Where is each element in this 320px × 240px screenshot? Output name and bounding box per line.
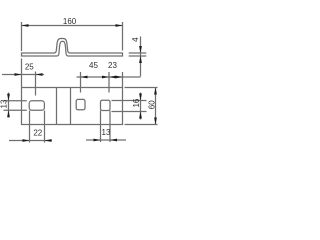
dimension 4: dimension line vertical <box>140 37 142 77</box>
dimension 16: dimension line <box>140 93 142 120</box>
svg-text:13: 13 <box>0 99 8 108</box>
dimension 45-23: shared extension line <box>108 72 110 93</box>
dimension 25: extension line left <box>21 59 23 88</box>
svg-text:22: 22 <box>33 129 42 138</box>
side view profile (strip with omega bump) <box>22 39 123 57</box>
dimension 45: arrow right <box>102 76 109 79</box>
dimension 13 left: dimension line <box>8 93 10 118</box>
svg-text:16: 16 <box>132 98 141 107</box>
dimension 60: extension line bottom <box>125 124 158 126</box>
dimension 25: dimension line <box>2 74 44 76</box>
dimension 60: arrow up <box>154 88 157 95</box>
dimension 160: arrow right <box>116 24 123 27</box>
dimension 60: arrow down <box>154 118 157 125</box>
dimension 16: arrow down <box>139 94 142 101</box>
dimension 22: extension line right <box>44 111 46 143</box>
dimension 16: arrow up <box>139 112 142 119</box>
dimension 16: extension line top <box>112 100 147 102</box>
dimension 23: arrow left <box>109 76 116 79</box>
svg-text:4: 4 <box>131 37 140 42</box>
dimension 13 left: extension line top <box>4 100 27 102</box>
svg-text:13: 13 <box>102 128 111 137</box>
dimension 45: extension line left <box>80 72 82 93</box>
dimension 25: arrow left <box>15 73 22 76</box>
dimension 23: extension line right (plate right edge extended up) <box>122 72 124 87</box>
slot A (left rounded slot) <box>29 101 44 110</box>
dimension 13 bottom: extension line right <box>109 111 111 143</box>
dimension 60: dimension line <box>155 88 157 125</box>
dimension 160: arrow left <box>22 24 29 27</box>
dimension 13 left: arrow up <box>7 110 10 117</box>
slot C (right square slot) <box>101 100 111 110</box>
dimension 4: extension tick bottom <box>129 55 147 57</box>
dimension 13 bottom: dimension line <box>86 139 126 141</box>
dimension 13 left: arrow down <box>7 94 10 101</box>
dimension 22: arrow left <box>23 139 30 142</box>
svg-text:45: 45 <box>89 61 98 70</box>
dimension 13 bottom: extension line left <box>100 111 102 143</box>
dimension 13 left: extension line bottom <box>4 109 27 111</box>
dimension 160: extension line left <box>21 22 23 51</box>
dimension 22: arrow right <box>45 139 52 142</box>
dimension 160: extension line right <box>122 22 124 51</box>
svg-text:160: 160 <box>63 17 77 26</box>
svg-text:60: 60 <box>148 100 157 109</box>
dimension 60: extension line top <box>125 87 158 89</box>
dimension 4: extension tick top <box>129 52 147 54</box>
dimension 22: extension line left <box>29 111 31 143</box>
dimension 22: dimension line <box>9 140 52 142</box>
slot B (middle square slot) <box>76 99 85 109</box>
dimension 16: extension line bottom <box>112 111 147 113</box>
svg-text:23: 23 <box>108 61 117 70</box>
plan view plate outline <box>22 88 123 125</box>
dimension 45-23: dimension line <box>77 76 141 78</box>
dimension 25: arrow right <box>36 73 43 76</box>
dimension 45: arrow left <box>81 76 88 79</box>
dimension 23: arrow right <box>116 76 123 79</box>
dimension 4: arrow up <box>139 56 142 63</box>
dimension 25: extension line right <box>35 72 37 96</box>
dimension 13 bottom: arrow right <box>110 139 117 142</box>
bend line right <box>70 88 72 125</box>
dimension 4: arrow down <box>139 46 142 53</box>
svg-text:25: 25 <box>25 62 34 71</box>
dimension 13 bottom: arrow left <box>94 139 101 142</box>
bend line left <box>56 88 58 125</box>
dimension 160: dimension line <box>22 25 123 27</box>
